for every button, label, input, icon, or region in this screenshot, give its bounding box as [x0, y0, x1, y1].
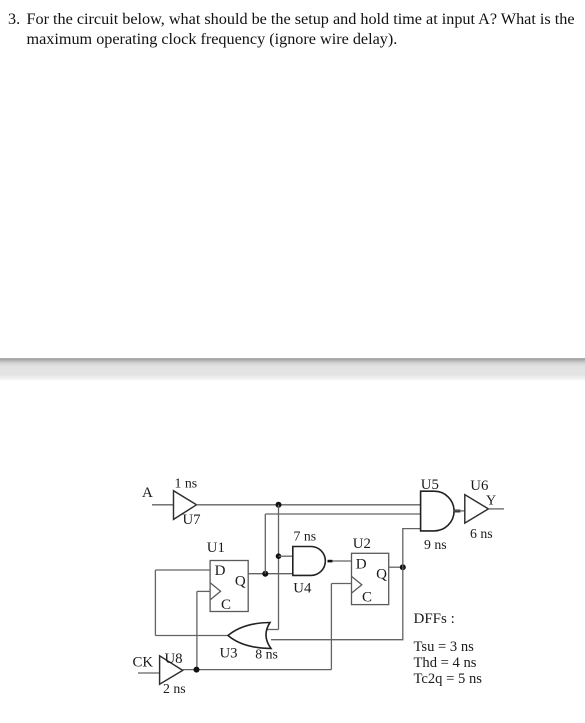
wire A-branch to U4 input 1: [279, 555, 294, 557]
and-gate U5: [421, 491, 454, 531]
svg-text:9 ns: 9 ns: [424, 537, 447, 552]
svg-text:Q: Q: [376, 567, 387, 583]
svg-text:Tc2q = 5 ns: Tc2q = 5 ns: [414, 671, 483, 687]
svg-text:Tsu = 3 ns: Tsu = 3 ns: [414, 639, 475, 655]
svg-text:C: C: [221, 597, 231, 613]
wire clock vertical to U2 C: [330, 584, 332, 670]
clock edge marker (U2): [352, 576, 362, 593]
node junction U2 Q: [400, 564, 406, 570]
svg-text:U2: U2: [353, 536, 371, 552]
or-gate U3 (points left): [228, 623, 271, 649]
svg-text:A: A: [142, 485, 153, 501]
node dash U4 output: [328, 560, 333, 563]
svg-text:U8: U8: [165, 651, 183, 667]
svg-text:DFFs :: DFFs :: [414, 611, 455, 627]
and-gate U4: [293, 547, 326, 576]
svg-text:Q: Q: [235, 573, 246, 589]
svg-text:CK: CK: [133, 655, 154, 671]
wire clock vertical to U1 C: [196, 591, 198, 669]
svg-text:2 ns: 2 ns: [163, 681, 186, 696]
wire U1 Q output to U4 input 2: [248, 573, 293, 575]
svg-text:U1: U1: [207, 540, 225, 556]
svg-text:U5: U5: [421, 477, 439, 493]
wire U1 Q to U5 input 2: [265, 513, 420, 515]
wire U8 output clock line: [183, 669, 332, 671]
svg-text:D: D: [215, 563, 226, 579]
svg-text:C: C: [362, 590, 372, 606]
node dash U5 output: [454, 510, 460, 513]
wire U5 output to U6: [454, 510, 465, 512]
wire CK input stub: [138, 672, 160, 674]
node junction U1 Q: [262, 571, 268, 577]
wire U1 D input: [155, 569, 210, 571]
wire vertical A-branch down to U4 and U3: [278, 505, 280, 630]
node junction clock: [194, 667, 200, 673]
svg-text:1 ns: 1 ns: [175, 475, 198, 490]
svg-text:U3: U3: [220, 645, 238, 661]
node junction at U4 top input: [276, 553, 282, 559]
buffer U6: [465, 495, 489, 523]
svg-text:U6: U6: [470, 478, 488, 494]
wire U2 Q output: [389, 566, 403, 568]
wire U3 output to feedback: [155, 635, 228, 637]
svg-text:U4: U4: [293, 581, 312, 597]
clock edge marker (U1): [210, 583, 221, 600]
wire U2 Q branch up to U5 input 3: [403, 529, 421, 568]
svg-text:U7: U7: [183, 512, 201, 528]
wire U7 output to U5 input 1: [197, 504, 421, 506]
buffer U7: [174, 491, 197, 520]
buffer U8: [160, 656, 183, 684]
node junction A-branch on U7 output wire: [276, 502, 282, 508]
wire A-branch to U3 input 1: [267, 629, 279, 631]
D flip-flop U1 body: [210, 561, 248, 612]
wire feedback left vertical (U3 out to U1 D): [154, 570, 156, 636]
wire U4 output to U2 D: [332, 560, 351, 562]
svg-text:Y: Y: [486, 493, 496, 508]
svg-text:Thd = 4 ns: Thd = 4 ns: [414, 655, 477, 671]
wire U1 Q branch up: [264, 514, 266, 574]
wire U2 C input: [331, 583, 351, 585]
wire Y output: [488, 508, 504, 510]
wire U2 Q branch down to U3 input 2: [271, 567, 403, 640]
svg-text:6 ns: 6 ns: [470, 526, 493, 541]
svg-text:7 ns: 7 ns: [294, 529, 317, 544]
svg-text:D: D: [356, 556, 367, 572]
svg-text:8 ns: 8 ns: [255, 646, 278, 661]
wire U1 C input: [197, 590, 210, 592]
wire A input stub: [152, 504, 174, 506]
D flip-flop U2 body: [352, 553, 389, 604]
